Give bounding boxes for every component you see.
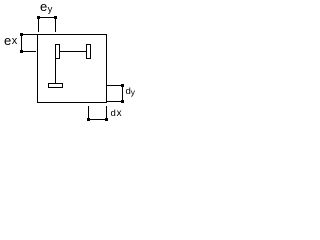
dimension dy : top end square	[121, 84, 124, 87]
dimension ex : bottom end square	[20, 50, 23, 53]
label ex	[4, 34, 11, 47]
plate outline (weld-group eccentricity diagram)	[0, 0, 145, 125]
horizontal arm connecting plates	[59, 51, 87, 52]
dimension dy : top extension line	[107, 85, 121, 86]
dimension dy : bottom end square	[121, 100, 124, 103]
dimension dy : bottom extension line	[107, 101, 121, 102]
dimension ex : top extension line	[23, 34, 37, 35]
dimension dx : line	[88, 119, 106, 120]
label ey	[40, 0, 47, 13]
dimension dx : left end square	[87, 118, 90, 121]
dimension dx : right extension line	[106, 106, 107, 119]
dimension dx : right end square	[105, 118, 108, 121]
weld plate top-right	[86, 44, 91, 59]
dimension dy : line	[122, 85, 123, 102]
dimension ey : left extension line	[38, 19, 39, 32]
dimension ey : right extension line	[55, 19, 56, 32]
bottom flange plate	[48, 83, 63, 88]
plate / section outline box	[37, 34, 107, 103]
dimension dx : left extension line	[88, 106, 89, 119]
weld plate top-left	[55, 44, 60, 59]
dimension ex : top end square	[20, 33, 23, 36]
dimension ex : bottom extension line	[23, 51, 36, 52]
label dy	[126, 87, 131, 97]
vertical web line	[55, 58, 56, 84]
dimension ex : line	[21, 34, 22, 52]
label dx	[111, 109, 116, 119]
dimension ey : line	[38, 17, 56, 18]
dimension ey : left end square	[37, 16, 40, 19]
dimension ey : right end square	[54, 16, 57, 19]
